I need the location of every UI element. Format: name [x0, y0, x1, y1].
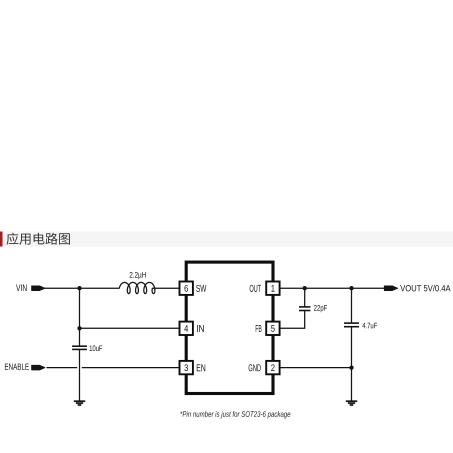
wire C2 to FB corner	[304, 311, 306, 329]
wire pin 2 GND to node	[280, 367, 352, 369]
capacitor C2 value label 22pF	[314, 305, 327, 312]
inductor L1 2.2uH coil	[119, 282, 155, 293]
op-amp/regulator IC U1 body	[186, 262, 273, 393]
pin 2 box	[266, 361, 279, 374]
wire crossing to pin 3 EN	[82, 367, 180, 369]
wire ENABLE arrow to crossing	[47, 367, 78, 369]
capacitor C3 4.7uF plates	[344, 323, 359, 327]
pin 5 number	[271, 325, 275, 332]
label VOUT 5V/0.4A	[400, 285, 450, 292]
pin 4 name IN	[197, 325, 204, 332]
pin 4 number	[184, 325, 188, 332]
wire OUT node down to C2	[304, 288, 306, 307]
pin 1 number	[271, 285, 274, 292]
wire FB corner to pin 5 FB	[280, 327, 306, 329]
label VIN	[16, 284, 27, 291]
wire VIN arrow to inductor	[45, 287, 120, 289]
wire C1 to ground	[79, 349, 81, 401]
wire pin 1 OUT to VOUT arrow	[280, 287, 385, 289]
capacitor C3 value label 4.7uF	[362, 323, 377, 329]
junction node VIN/L1/C1	[77, 286, 81, 290]
capacitor C2 22pF plates	[299, 307, 310, 311]
junction node GND/C3	[349, 365, 353, 369]
terminal arrow ENABLE	[32, 365, 45, 370]
pin 2 number	[271, 364, 274, 371]
pin 5 name FB	[256, 325, 262, 332]
terminal arrow VIN	[32, 286, 45, 291]
pin 6 name SW	[196, 285, 206, 292]
capacitor C1 10uF plates	[72, 346, 87, 349]
wire VOUT node down to C3	[351, 288, 353, 323]
pin 4 box	[180, 322, 193, 335]
wire C3 to ground	[351, 327, 353, 401]
wire VIN node down to C1	[79, 288, 81, 346]
pin 3 number	[184, 364, 188, 371]
note pin number footnote	[180, 411, 290, 418]
pin 6 number	[184, 285, 187, 292]
pin 6 box	[180, 282, 193, 295]
pin 1 name OUT	[250, 285, 261, 292]
header red accent bar	[0, 232, 3, 247]
inductor value label 2.2µH	[130, 272, 146, 279]
capacitor C1 value label 10uF	[90, 345, 103, 351]
pin 3 box	[180, 361, 193, 374]
junction node VOUT/C3	[349, 286, 353, 290]
pin 5 box	[266, 322, 279, 335]
pin 1 box	[266, 282, 279, 295]
header title 应用电路图	[7, 233, 70, 245]
wire inductor to pin 6 SW	[152, 287, 180, 289]
junction node IN branch	[77, 326, 81, 330]
label ENABLE	[5, 364, 29, 370]
pin 2 name GND	[249, 364, 261, 371]
junction node OUT/C2	[303, 286, 307, 290]
header bar background	[0, 232, 453, 247]
terminal arrow VOUT	[384, 286, 397, 291]
pin 3 name EN	[197, 364, 205, 371]
ground symbol left	[74, 401, 85, 405]
wire node to pin 4 IN	[80, 327, 180, 329]
ground symbol right	[346, 401, 357, 405]
